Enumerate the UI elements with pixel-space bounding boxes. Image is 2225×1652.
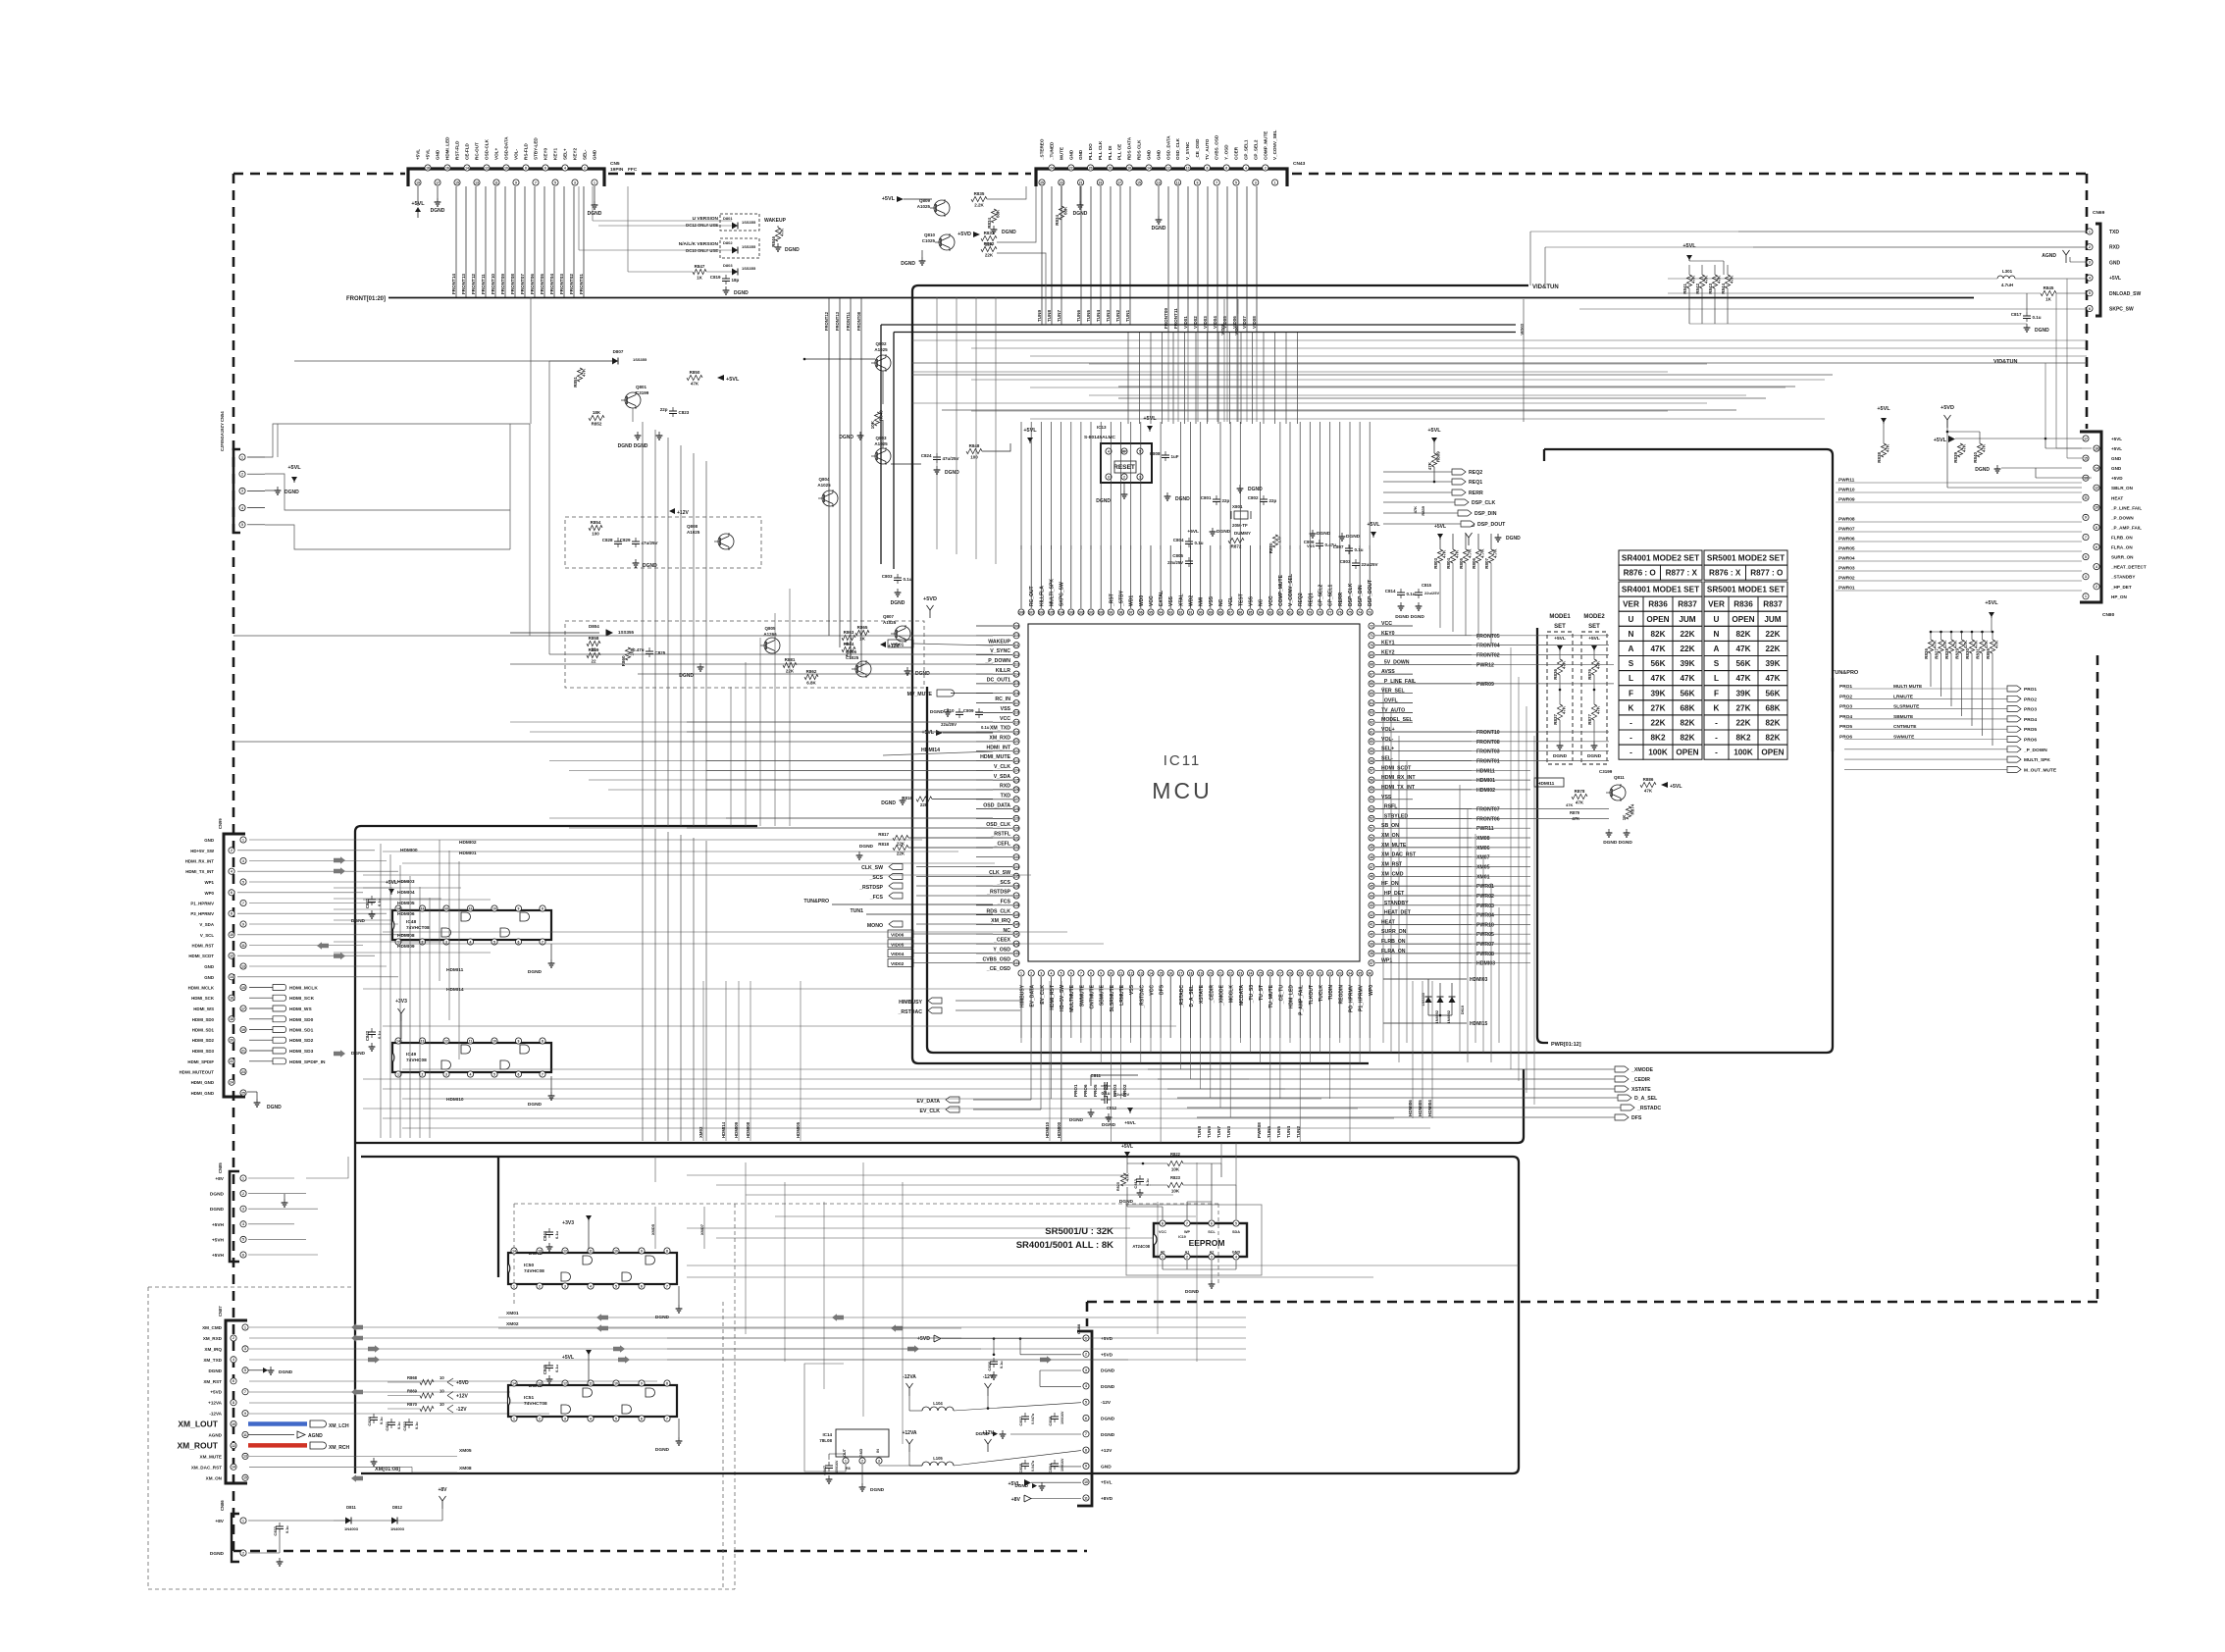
connector CN43 pin 20: [1088, 165, 1094, 171]
svg-text:DGND: DGND: [279, 1369, 293, 1375]
svg-text:14: 14: [1149, 971, 1153, 975]
svg-text:1: 1: [1162, 1255, 1164, 1259]
MCU pin 42 _HEAT_DET: [1369, 912, 1374, 918]
svg-text:V_SYNC: V_SYNC: [990, 648, 1010, 654]
svg-text:100: 100: [1098, 610, 1104, 614]
terminal HDMI_WS: [249, 1007, 273, 1009]
resistor R847 1K: [693, 269, 706, 274]
svg-text:3: 3: [1255, 181, 1257, 184]
connector CN99 pin 1 GND: [240, 837, 246, 843]
svg-text:7: 7: [666, 1417, 668, 1420]
svg-text:_P_DOWN: _P_DOWN: [2110, 515, 2134, 520]
connector CN80 pin 11 HEAT: [2083, 494, 2089, 500]
svg-text:0.1u: 0.1u: [397, 1421, 401, 1429]
svg-text:SR4001 MODE2 SET: SR4001 MODE2 SET: [1622, 554, 1699, 563]
power +5VL above R841: [1688, 255, 1690, 261]
ground AGND flag: [248, 1433, 294, 1435]
wire CN54 pin5 net: [265, 525, 510, 549]
svg-text:5: 5: [615, 1284, 617, 1288]
svg-text:XM_CMD: XM_CMD: [202, 1325, 223, 1330]
svg-text:TUN4: TUN4: [1286, 1126, 1291, 1138]
svg-text:22u/25V: 22u/25V: [1362, 562, 1378, 567]
svg-text:MULTI_SPK: MULTI_SPK: [2024, 757, 2050, 763]
MCU pin top 85 VSS: [1247, 609, 1253, 615]
svg-text:HDMI14: HDMI14: [446, 987, 464, 993]
svg-text:7: 7: [1085, 1432, 1087, 1436]
svg-text:FLRB_ON: FLRB_ON: [2111, 536, 2133, 541]
table SR5001 MODE1 SET: [1704, 582, 1787, 596]
svg-text:VSS: VSS: [1168, 595, 1174, 606]
svg-text:14: 14: [2095, 466, 2098, 470]
svg-text:MODEL_SEL: MODEL_SEL: [1381, 717, 1414, 723]
svg-text:8: 8: [231, 912, 233, 916]
svg-text:_RSTDAC: _RSTDAC: [1139, 985, 1145, 1009]
svg-text:XM_IRQ: XM_IRQ: [204, 1347, 222, 1352]
svg-text:Q804: Q804: [818, 477, 830, 482]
resistor R838 47K: [1883, 424, 1885, 443]
svg-text:C1025: C1025: [846, 655, 859, 660]
connector CN5 pin 19: [415, 180, 421, 185]
svg-text:68: 68: [1370, 663, 1373, 667]
svg-text:C810: C810: [944, 708, 955, 713]
svg-text:D_A_SEL: D_A_SEL: [1189, 985, 1195, 1007]
svg-text:SR5001 MODE1 SET: SR5001 MODE1 SET: [1707, 586, 1785, 594]
svg-text:2: 2: [584, 166, 586, 170]
svg-text:M_OUT_MUTE: M_OUT_MUTE: [2024, 767, 2057, 773]
svg-text:R868: R868: [407, 1375, 418, 1380]
transistor Q811 C3199: [1610, 785, 1626, 800]
terminal _RSTDAC: [928, 1007, 942, 1013]
svg-text:PRO4: PRO4: [1103, 1084, 1108, 1097]
svg-text:XM_RST: XM_RST: [203, 1379, 222, 1384]
wire CN54 pin1 net: [265, 424, 530, 457]
svg-text:4: 4: [470, 1072, 472, 1076]
svg-text:44: 44: [1370, 894, 1373, 898]
svg-text:R830: R830: [1965, 648, 1970, 659]
resistor R855 47K: [1992, 632, 1993, 640]
svg-text:GND: GND: [859, 1449, 863, 1458]
svg-text:47K: 47K: [1735, 674, 1750, 683]
svg-text:VSS: VSS: [1129, 984, 1135, 995]
resistor R834 68K under CN43 pin23: [1061, 186, 1062, 206]
capacitor C817 0.1u: [2026, 293, 2028, 312]
svg-text:SCL: SCL: [1208, 1230, 1216, 1234]
svg-text:U: U: [1714, 615, 1720, 624]
svg-text:DGND: DGND: [881, 800, 896, 806]
svg-text:47K: 47K: [1427, 461, 1432, 470]
svg-text:56K: 56K: [1765, 689, 1780, 697]
resistor R840 47K: [1946, 420, 1948, 432]
IC IC50 74VHC08: [508, 1253, 677, 1284]
wire DC_OUT1: [638, 673, 993, 675]
svg-text:59: 59: [1370, 749, 1373, 753]
svg-text:FLRA_ON: FLRA_ON: [1381, 949, 1406, 955]
svg-text:PRO2: PRO2: [1839, 694, 1852, 699]
svg-text:100: 100: [970, 455, 978, 460]
svg-text:63: 63: [1370, 711, 1373, 715]
svg-text:22K: 22K: [1680, 645, 1694, 653]
wire TXD to CN69: [1530, 231, 2087, 232]
wire CN43 FRONT11: [1177, 186, 1179, 333]
svg-text:12: 12: [563, 1249, 567, 1253]
svg-text:RXD: RXD: [2109, 245, 2120, 251]
svg-text:22K: 22K: [920, 802, 929, 807]
svg-text:R825: R825: [1116, 1182, 1120, 1191]
MCU pin 4 HDMI_RST: [1048, 970, 1054, 976]
svg-text:CN80: CN80: [2102, 612, 2115, 618]
svg-text:94: 94: [1159, 610, 1163, 614]
svg-text:3: 3: [564, 1284, 566, 1288]
svg-text:XM_DAC_RST: XM_DAC_RST: [191, 1465, 222, 1470]
svg-text:0.1u: 0.1u: [981, 725, 990, 730]
svg-text:_P_AMP_FAIL: _P_AMP_FAIL: [2110, 526, 2142, 531]
connector CN43 pin 25: [1039, 180, 1045, 185]
capacitor C823: [672, 407, 674, 411]
svg-text:24: 24: [230, 1081, 233, 1085]
svg-text:10: 10: [614, 1381, 618, 1385]
MCU pin 113 KILLR: [1013, 661, 1019, 667]
svg-text:120: 120: [1013, 730, 1019, 734]
svg-text:RDS DATA: RDS DATA: [1127, 136, 1132, 160]
connector CN43 pin 5: [1233, 180, 1239, 185]
svg-text:HDMI14: HDMI14: [921, 748, 940, 753]
svg-text:47K: 47K: [1704, 275, 1709, 284]
wire thick bus PWR[01:12]: [1537, 628, 1548, 1043]
svg-text:DGND: DGND: [208, 1368, 222, 1373]
svg-text:HDMI_MUTEOUT: HDMI_MUTEOUT: [180, 1070, 215, 1075]
svg-text:DGND: DGND: [1587, 753, 1602, 759]
wire CN5 FRONT11: [485, 186, 487, 297]
wire CN5 FRONT07: [524, 186, 526, 297]
svg-text:DNLOAD_SW: DNLOAD_SW: [2109, 291, 2142, 297]
svg-text:PWR[01:12]: PWR[01:12]: [1551, 1042, 1581, 1048]
svg-text:CN86: CN86: [220, 1500, 225, 1511]
connector CN99 pin 11 HDMI_RST: [240, 942, 246, 948]
svg-text:R841: R841: [1682, 284, 1687, 294]
svg-text:HDMI_GND: HDMI_GND: [191, 1080, 214, 1085]
svg-text:0.047u: 0.047u: [1031, 1461, 1035, 1471]
svg-text:23: 23: [1060, 181, 1063, 184]
svg-text:5: 5: [244, 1368, 246, 1372]
svg-text:NMI: NMI: [1199, 596, 1205, 606]
svg-text:10: 10: [440, 1375, 444, 1380]
svg-text:XM_RXD: XM_RXD: [203, 1336, 223, 1341]
svg-text:130: 130: [1013, 827, 1019, 831]
resistor R810 1.0: [1272, 535, 1277, 547]
svg-text:A: A: [1629, 645, 1634, 653]
svg-text:RC_OUT: RC_OUT: [1029, 586, 1035, 606]
MCU pin 17 _RSTADC: [1177, 970, 1183, 976]
wire SKPC_SW: [1579, 308, 2087, 310]
connector CN5 pin 17: [435, 180, 440, 185]
svg-text:5: 5: [242, 880, 244, 884]
svg-text:0.047u: 0.047u: [1031, 1414, 1035, 1424]
ground DGND DGND under C811: [1090, 1109, 1092, 1112]
svg-text:C835: C835: [1018, 1463, 1023, 1472]
svg-text:VCC: VCC: [1381, 621, 1392, 627]
svg-text:VCC: VCC: [1268, 595, 1274, 606]
svg-text:9: 9: [641, 1381, 643, 1385]
transistor Q805 A1266: [764, 638, 780, 653]
svg-text:+5VD: +5VD: [917, 1336, 930, 1342]
svg-text:16: 16: [1127, 166, 1131, 170]
svg-text:FRONT09: FRONT09: [500, 274, 505, 294]
wire CN5 FRONT06: [534, 186, 536, 297]
svg-text:110: 110: [1013, 634, 1019, 638]
svg-text:HDMI_LED: HDMI_LED: [445, 136, 450, 160]
svg-text:OSD-DATA: OSD-DATA: [504, 136, 509, 160]
ground DGND at CN80 GND pins: [2001, 467, 2082, 469]
svg-text:HDMI_INT: HDMI_INT: [987, 745, 1011, 750]
svg-text:47K: 47K: [1765, 674, 1780, 683]
svg-text:10: 10: [504, 166, 508, 170]
connector CN69 pin 1 TXD: [2087, 229, 2093, 234]
svg-text:XM_TXD: XM_TXD: [203, 1358, 222, 1363]
svg-text:TUN8: TUN8: [1197, 1126, 1202, 1138]
connector CN43 pin 11: [1175, 180, 1181, 185]
svg-text:VID03: VID03: [1203, 316, 1208, 329]
svg-text:AGND: AGND: [308, 1433, 323, 1439]
svg-text:+5VD: +5VD: [923, 596, 937, 602]
connector CN88 pin 6 DGND: [1083, 1415, 1089, 1420]
connector CN87 pin 15 XM_ON: [242, 1474, 248, 1480]
svg-text:DGND: DGND: [1506, 536, 1521, 542]
svg-text:136: 136: [1013, 884, 1019, 888]
wire verticals XM box: [745, 1162, 747, 1334]
wires vert KILLR etc: [548, 361, 550, 654]
connector CN43 pin 12: [1165, 165, 1171, 171]
terminal flag PRO6: [2007, 737, 2021, 743]
svg-text:4.7uH: 4.7uH: [2001, 283, 2013, 287]
svg-text:1N4002: 1N4002: [1447, 1010, 1451, 1023]
svg-text:-12V: -12V: [983, 1374, 994, 1380]
svg-text:14: 14: [232, 1466, 235, 1470]
wire CN54 pin2 net: [265, 474, 510, 510]
connector CN99 pin 16 HDMI_SCK: [229, 995, 234, 1001]
svg-text:MP: MP: [1121, 449, 1127, 453]
svg-text:PRO1: PRO1: [2024, 687, 2037, 693]
svg-text:DGND: DGND: [267, 1105, 282, 1110]
svg-text:MULTMUTE: MULTMUTE: [1069, 984, 1075, 1011]
svg-text:3: 3: [445, 1072, 447, 1076]
svg-text:CLK_SW: CLK_SW: [861, 865, 883, 871]
svg-text:47K: 47K: [1942, 640, 1947, 648]
MCU pin 126 TXD: [1013, 787, 1019, 793]
svg-text:HP_ON: HP_ON: [2111, 594, 2128, 599]
connector CN88 pin 7 DGND: [1083, 1431, 1089, 1437]
svg-text:+5VL: +5VL: [1187, 529, 1199, 535]
svg-text:IC13: IC13: [1097, 425, 1107, 430]
svg-text:R835: R835: [974, 191, 985, 196]
svg-text:R834: R834: [987, 218, 992, 229]
svg-text:DC_OUT1: DC_OUT1: [987, 678, 1010, 684]
transistor Q802 A1025: [875, 355, 891, 371]
MCU pin 124 V_SDA: [1013, 767, 1019, 773]
connector CN87 pin 7 +5VD: [242, 1389, 248, 1395]
svg-text:47: 47: [1370, 865, 1373, 869]
MCU pin 61 VOL+: [1369, 729, 1374, 735]
svg-text:5: 5: [1085, 1401, 1087, 1405]
connector CN54 pin 3: [239, 488, 245, 493]
ground DGND at C844: [548, 1243, 550, 1247]
MCU pin 56 HDMI_RX_INT: [1369, 777, 1374, 783]
connector CN80 pin 12 SBLR_ON: [2094, 485, 2099, 490]
svg-text:DGND: DGND: [528, 1102, 543, 1108]
svg-text:DGND: DGND: [1002, 230, 1016, 235]
svg-text:TUN3: TUN3: [1106, 310, 1111, 322]
terminal _FCS: [889, 893, 903, 899]
svg-text:HDMI15: HDMI15: [1470, 1021, 1488, 1027]
svg-text:DGND DGND: DGND DGND: [1395, 614, 1424, 620]
svg-text:117: 117: [1013, 701, 1019, 705]
svg-text:DUMMY: DUMMY: [1234, 531, 1251, 536]
ground DGND below C803: [897, 589, 899, 593]
svg-text:7: 7: [1186, 1221, 1188, 1225]
resistor R876 47K: [1593, 651, 1595, 659]
svg-text:PWR04: PWR04: [1838, 556, 1855, 562]
ground DGND at IC50 pin7: [678, 1286, 680, 1305]
svg-text:9: 9: [242, 922, 244, 926]
svg-text:6: 6: [544, 166, 546, 170]
svg-text:R874: R874: [1630, 803, 1635, 814]
diode D801 1SS355 U VERSION: [720, 214, 759, 231]
ground DGND under CN43 pin13: [1158, 186, 1160, 216]
svg-text:HDMI_TX_INT: HDMI_TX_INT: [1381, 785, 1416, 791]
MCU pin 60 VOL-: [1369, 739, 1374, 745]
svg-text:HDMI08: HDMI08: [746, 1121, 750, 1138]
svg-text:SKPC_SW: SKPC_SW: [2109, 307, 2134, 313]
wires CN43 bus verticals down mid: [1167, 333, 1169, 423]
svg-text:PLL CLK: PLL CLK: [1098, 140, 1103, 160]
svg-text:64: 64: [1370, 701, 1373, 705]
svg-text:R862: R862: [806, 669, 817, 674]
svg-text:56: 56: [1370, 778, 1373, 782]
svg-text:CVBS_OSD: CVBS_OSD: [982, 956, 1010, 962]
resistor R826 47K: [1930, 632, 1932, 640]
MCU pin 33 REGDIN: [1337, 970, 1343, 976]
svg-text:DGND: DGND: [839, 435, 854, 440]
svg-text:6: 6: [1070, 971, 1072, 975]
svg-text:100: 100: [592, 532, 599, 537]
svg-text:HDMI03: HDMI03: [1476, 961, 1495, 967]
MCU pin 11 LRMUTE: [1117, 970, 1123, 976]
svg-text:82K: 82K: [1680, 734, 1694, 743]
svg-text:TUN5: TUN5: [1086, 310, 1091, 322]
svg-text:+3V3: +3V3: [562, 1220, 574, 1226]
svg-text:1N4003: 1N4003: [344, 1526, 359, 1531]
svg-text:36: 36: [1368, 971, 1371, 975]
terminal flag PRO4: [2007, 716, 2021, 722]
svg-text:S: S: [1629, 659, 1634, 668]
svg-text:X801: X801: [1232, 504, 1243, 509]
svg-text:_STANDBY: _STANDBY: [1380, 901, 1409, 906]
svg-text:11: 11: [589, 1249, 593, 1253]
svg-text:47K: 47K: [780, 228, 785, 236]
svg-text:+5VD: +5VD: [210, 1390, 222, 1395]
svg-text:KEY0: KEY0: [543, 148, 548, 160]
svg-text:GND: GND: [1232, 1251, 1241, 1255]
svg-text:IC19: IC19: [1178, 1235, 1186, 1239]
svg-text:+5VL: +5VL: [1023, 428, 1037, 434]
terminal flag PRO5: [2007, 726, 2021, 732]
connector CN88 pin 10 +5VL: [1083, 1479, 1089, 1485]
svg-text:47K: 47K: [1717, 275, 1722, 284]
transistor Q809 A1025: [934, 200, 950, 216]
svg-text:93: 93: [1168, 610, 1172, 614]
svg-text:_RSTDAC: _RSTDAC: [898, 1009, 923, 1015]
connector CN85 pin 3 DGND: [240, 1206, 246, 1212]
ground DGND at CN99: [247, 1091, 257, 1093]
MCU pin 125 RXD: [1013, 777, 1019, 783]
wire CN43 VID07: [1246, 186, 1248, 333]
connector CN43 pin 16: [1126, 165, 1132, 171]
dashed box Q808: [565, 517, 761, 568]
svg-text:PWR09: PWR09: [1838, 497, 1855, 503]
MCU pin 134 CLK_SW: [1013, 863, 1019, 869]
ground DGND below R846: [777, 243, 779, 247]
svg-text:82K: 82K: [1765, 719, 1780, 728]
svg-text:MUTE: MUTE: [1059, 147, 1063, 160]
svg-text:17: 17: [1179, 971, 1183, 975]
MCU pin top 77 CP_SEL1: [1327, 609, 1333, 615]
svg-text:EV_DATA: EV_DATA: [1030, 985, 1036, 1007]
svg-text:41: 41: [1370, 923, 1373, 927]
svg-text:R840: R840: [1973, 452, 1978, 463]
svg-text:DGND: DGND: [655, 1447, 670, 1453]
svg-text:95: 95: [1149, 610, 1153, 614]
MCU pin 116 RC_IN: [1013, 691, 1019, 697]
svg-text:22: 22: [230, 1059, 233, 1063]
svg-text:DGND DGND: DGND DGND: [618, 443, 648, 449]
svg-text:47K: 47K: [1974, 640, 1979, 648]
connector CN88 pin 8 +12V: [1083, 1447, 1089, 1453]
svg-text:51: 51: [1370, 827, 1373, 831]
svg-text:_P_DOWN: _P_DOWN: [984, 658, 1010, 664]
svg-text:SR4001 MODE1 SET: SR4001 MODE1 SET: [1622, 586, 1699, 594]
connector CN5 pin 3: [572, 180, 578, 185]
svg-text:84: 84: [1259, 610, 1263, 614]
svg-text:FRONT01: FRONT01: [579, 274, 584, 294]
svg-text:_RSTDSP: _RSTDSP: [858, 885, 883, 891]
svg-text:1K: 1K: [2045, 297, 2052, 302]
svg-text:_TU_S3: _TU_S3: [1249, 985, 1255, 1005]
svg-text:FRONT06: FRONT06: [1476, 816, 1500, 822]
MCU pin 12 VSS: [1128, 970, 1134, 976]
svg-text:FFC: FFC: [628, 167, 638, 173]
resistor R828 47K: [1950, 632, 1952, 640]
svg-text:GND: GND: [204, 964, 214, 969]
svg-text:49: 49: [1370, 846, 1373, 850]
svg-text:NC: NC: [1259, 598, 1265, 606]
svg-text:HDMI_RX_INT: HDMI_RX_INT: [185, 859, 215, 864]
svg-text:13: 13: [475, 181, 479, 184]
svg-text:R876 : O: R876 : O: [1624, 569, 1657, 578]
MCU pin 59 SEL+: [1369, 749, 1374, 754]
svg-text:N: N: [1629, 630, 1634, 639]
MCU pin top 75 DSP_CLK: [1347, 609, 1353, 615]
resistor R830 47K: [1971, 632, 1973, 640]
svg-text:R865: R865: [857, 625, 868, 630]
transistor Q806 C1025: [855, 661, 871, 677]
connector CN87 pin 11 AGND: [242, 1431, 248, 1437]
svg-text:55: 55: [1370, 788, 1373, 792]
svg-text:3: 3: [241, 490, 243, 493]
wires transistor cluster to bus: [632, 408, 634, 422]
svg-text:V_CLK: V_CLK: [994, 764, 1010, 770]
wire CN43 TUN5: [1090, 186, 1092, 325]
svg-text:4: 4: [590, 1284, 592, 1288]
svg-text:5: 5: [554, 181, 556, 184]
